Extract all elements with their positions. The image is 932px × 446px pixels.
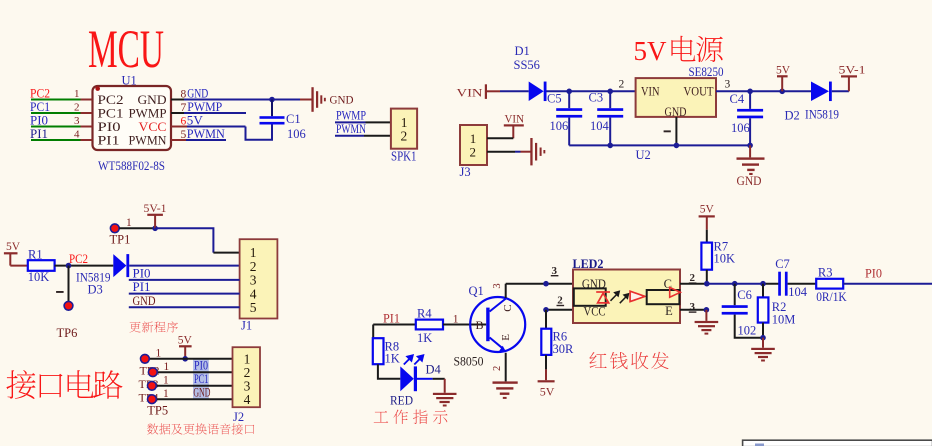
wire U1 pin 8 GND net — [171, 99, 184, 101]
caption IR transceiver — [589, 352, 668, 369]
node junction VCC/R6 — [543, 307, 549, 313]
svg-text:C: C — [502, 304, 514, 311]
wire VIN to D1 — [487, 90, 500, 92]
capacitor C1 — [271, 100, 273, 117]
node junction 5V port — [779, 89, 785, 95]
svg-text:E: E — [665, 304, 673, 318]
wire D4 to ground — [417, 378, 433, 380]
svg-text:PC1: PC1 — [194, 372, 209, 386]
wire 5V to R1 — [10, 265, 28, 267]
svg-text:10M: 10M — [772, 312, 796, 326]
svg-text:WT588F02-8S: WT588F02-8S — [98, 158, 165, 173]
node junction R2/C6 bottom — [760, 335, 766, 341]
regulator U2 SE8250 body — [636, 78, 716, 117]
wire C6 bottom — [735, 315, 763, 338]
node junction C6 — [732, 281, 738, 287]
svg-text:TP6: TP6 — [57, 326, 78, 340]
wire ground bus (PSU) — [569, 144, 750, 146]
capacitor C4 — [749, 91, 751, 109]
svg-text:GND: GND — [665, 105, 687, 119]
svg-text:PC1: PC1 — [98, 106, 124, 120]
svg-text:0R/1K: 0R/1K — [816, 290, 847, 304]
svg-text:U2: U2 — [636, 148, 651, 162]
node junction R7 — [704, 281, 710, 287]
node junction C5 top — [566, 89, 572, 95]
svg-text:4: 4 — [244, 392, 251, 407]
wire LED2 C to C7 — [680, 283, 707, 285]
node junction 5V J2 — [182, 356, 188, 362]
svg-text:E: E — [500, 334, 512, 341]
node junction C1 top — [269, 97, 275, 103]
wire U2 GND to bus — [675, 117, 677, 145]
LED2 internal input box — [574, 288, 606, 305]
ground GND (MCU) — [311, 87, 313, 112]
svg-text:VCC: VCC — [139, 120, 167, 134]
LED2 internal arrows — [611, 291, 629, 303]
svg-text:2: 2 — [74, 102, 80, 114]
svg-text:104: 104 — [590, 119, 610, 133]
svg-text:SS56: SS56 — [514, 58, 540, 72]
wire TP2 to J2 pin 2 — [157, 371, 232, 373]
wire R1 to D3 — [55, 265, 114, 267]
wire junction to TP6 — [68, 266, 70, 302]
svg-text:5V: 5V — [178, 335, 193, 347]
svg-text:3: 3 — [725, 79, 731, 91]
connector J3 — [460, 125, 487, 165]
wire PI1 to U1 pin 4 — [31, 139, 81, 141]
svg-text:5: 5 — [250, 300, 257, 315]
wire TP3 to J2 pin 3 — [156, 385, 232, 387]
svg-text:8: 8 — [181, 89, 187, 101]
svg-text:1: 1 — [453, 313, 459, 325]
wire R6 to 5V — [545, 355, 547, 370]
node junction collector wire — [543, 281, 549, 287]
svg-text:PI1: PI1 — [98, 133, 120, 147]
node junction C3 bottom — [607, 143, 613, 149]
svg-text:106: 106 — [550, 119, 569, 133]
svg-text:VIN: VIN — [505, 112, 525, 126]
svg-text:5V: 5V — [6, 241, 21, 253]
svg-text:PI0: PI0 — [865, 266, 882, 280]
svg-text:5V: 5V — [634, 35, 667, 66]
test point circle TP4 — [148, 395, 157, 404]
wire PI0 to U1 pin 3 — [31, 126, 81, 128]
wire Q1 collector to LED2 — [505, 284, 507, 298]
ground (D4) — [433, 393, 457, 395]
svg-text:RED: RED — [390, 394, 413, 408]
wire U2 VOUT to 5V — [716, 90, 811, 92]
pin dash (TP6) — [56, 291, 64, 293]
svg-text:R4: R4 — [417, 306, 432, 320]
LED2 internal IR led — [596, 292, 610, 303]
wire PI1 to R4 — [373, 324, 416, 326]
svg-text:5: 5 — [181, 129, 187, 141]
svg-text:PI1: PI1 — [383, 311, 400, 325]
svg-text:106: 106 — [287, 127, 306, 141]
svg-text:5V-1: 5V-1 — [839, 64, 866, 76]
resistor R2 — [762, 284, 764, 298]
svg-text:J1: J1 — [241, 319, 252, 333]
pin number 1 dash (U2 GND) — [664, 130, 671, 132]
svg-text:C5: C5 — [547, 91, 562, 105]
LED2 internal phototransistor box — [647, 290, 680, 304]
wire 5V-1 to J1 pin 1 — [155, 228, 213, 252]
wire PWMP to SPK1 pin 1 — [335, 121, 366, 123]
svg-text:PWMP: PWMP — [129, 106, 167, 120]
wire GND to J1 pin 5 — [129, 306, 240, 308]
svg-text:5V: 5V — [540, 384, 555, 398]
wire PC1 to U1 pin 2 — [31, 112, 81, 114]
svg-text:D4: D4 — [426, 363, 442, 377]
resistor R4 — [416, 320, 443, 330]
svg-text:SPK1: SPK1 — [391, 148, 417, 163]
svg-text:C1: C1 — [286, 112, 301, 126]
svg-text:PI1: PI1 — [30, 127, 48, 141]
svg-text:1: 1 — [74, 88, 80, 100]
wire U1 pin 5 PWMN net — [171, 139, 186, 141]
svg-text:TP1: TP1 — [110, 233, 131, 247]
wire C7 to R3 — [788, 283, 817, 285]
svg-text:2: 2 — [470, 144, 477, 159]
wire J3 pin 2 to ground — [487, 151, 515, 153]
diode D2 IN5819 — [811, 82, 829, 102]
svg-text:4: 4 — [74, 129, 80, 141]
svg-text:1: 1 — [156, 347, 162, 359]
window fragment bottom-right — [743, 440, 932, 446]
capacitor C5 — [568, 91, 570, 108]
svg-text:1K: 1K — [417, 331, 432, 345]
connector J1 — [240, 239, 278, 318]
LED2 internal buffer triangle — [630, 291, 645, 301]
node junction C4 bottom — [747, 143, 753, 149]
capacitor C3 — [609, 91, 611, 108]
svg-text:10K: 10K — [714, 251, 736, 265]
transistor Q1 S8050 — [470, 297, 525, 352]
svg-text:LED2: LED2 — [573, 257, 604, 271]
svg-text:PC1: PC1 — [30, 100, 50, 114]
test point circle TP2 — [148, 368, 157, 377]
svg-text:30R: 30R — [553, 342, 575, 356]
svg-text:D3: D3 — [88, 282, 103, 296]
svg-text:PI0: PI0 — [98, 120, 121, 134]
svg-text:2: 2 — [492, 366, 503, 371]
svg-text:5V: 5V — [776, 64, 791, 76]
wire PC2 to U1 pin 1 — [31, 99, 81, 101]
node junction C3 top — [607, 89, 613, 95]
svg-text:1: 1 — [164, 361, 170, 373]
node junction PC2 — [66, 263, 72, 269]
svg-text:1K: 1K — [385, 352, 400, 366]
ground (R2/C6) — [762, 338, 764, 348]
resistor R8 — [373, 338, 384, 364]
svg-text:3: 3 — [492, 283, 503, 288]
section title interface circuit — [6, 370, 122, 399]
svg-text:IN5819: IN5819 — [805, 108, 839, 122]
resistor R7 — [701, 243, 712, 270]
svg-text:R3: R3 — [818, 265, 833, 279]
wire R8 to D4 — [378, 364, 400, 379]
caption work indicator — [374, 410, 448, 424]
diode D3 IN5819 — [113, 254, 126, 277]
LED2 internal collector arrow — [670, 287, 681, 297]
resistor R6 — [541, 329, 551, 355]
optocoupler LED2 body — [573, 270, 680, 324]
selection highlight band — [193, 358, 209, 399]
svg-text:7: 7 — [181, 102, 187, 114]
svg-text:D2: D2 — [785, 109, 800, 123]
node junction C7/R2 — [760, 281, 766, 287]
svg-text:PC2: PC2 — [69, 252, 88, 266]
wire J3 pin 1 to VIN — [487, 137, 513, 139]
resistor R1 — [28, 260, 55, 271]
svg-text:R1: R1 — [28, 247, 43, 261]
svg-text:S8050: S8050 — [454, 354, 484, 368]
svg-text:106: 106 — [731, 121, 750, 135]
wire R4 to Q1 base — [443, 324, 486, 326]
svg-text:VCC: VCC — [584, 305, 606, 319]
diode D1 SS56 — [529, 82, 544, 102]
svg-text:10K: 10K — [28, 270, 50, 284]
svg-text:GND: GND — [187, 87, 208, 101]
svg-text:GND: GND — [133, 294, 156, 308]
svg-text:Q1: Q1 — [469, 284, 484, 298]
svg-text:GND: GND — [138, 93, 167, 107]
svg-text:SE8250: SE8250 — [689, 65, 724, 79]
svg-text:C7: C7 — [775, 257, 790, 271]
svg-text:C4: C4 — [730, 92, 745, 106]
svg-text:PI0: PI0 — [30, 114, 48, 128]
svg-text:5V: 5V — [187, 114, 203, 128]
ground GND (PSU) — [749, 145, 751, 157]
svg-text:J3: J3 — [460, 165, 471, 179]
wire TP1 to 5V-1 — [119, 227, 155, 229]
svg-text:GND: GND — [737, 174, 762, 188]
svg-text:2: 2 — [401, 129, 408, 144]
svg-text:MCU: MCU — [88, 19, 164, 79]
svg-text:5V: 5V — [700, 204, 715, 216]
svg-text:VIN: VIN — [641, 85, 660, 99]
capacitor C7 — [778, 272, 781, 296]
svg-text:PWMN: PWMN — [187, 127, 225, 141]
wire PI1 to R8 — [372, 325, 374, 339]
LED D4 — [400, 366, 414, 391]
node junction C4 top — [747, 89, 753, 95]
wire D3 to J1 pin 2 — [129, 265, 239, 267]
svg-text:GND: GND — [330, 93, 354, 107]
wire TP to J2 pin 1 — [149, 358, 232, 360]
node junction U2 GND — [674, 143, 680, 149]
svg-text:C3: C3 — [589, 90, 604, 104]
wire D1 to U2 VIN — [546, 90, 635, 92]
svg-text:PI0: PI0 — [133, 267, 151, 281]
svg-text:D1: D1 — [515, 44, 530, 58]
wire VCC junction to LED2 — [546, 309, 573, 311]
svg-text:6: 6 — [181, 116, 187, 128]
svg-text:B: B — [476, 318, 484, 332]
caption update program — [130, 321, 178, 332]
wire PI0 to J1 pin 3 — [129, 279, 240, 281]
svg-text:104: 104 — [788, 285, 808, 299]
svg-text:PWMN: PWMN — [129, 133, 167, 147]
svg-text:C6: C6 — [737, 288, 752, 302]
svg-text:GND: GND — [193, 386, 210, 400]
power port 5V (R6) — [538, 380, 555, 382]
svg-text:PC2: PC2 — [98, 93, 124, 107]
svg-text:PI1: PI1 — [133, 280, 151, 294]
wire PWMN to SPK1 pin 2 — [335, 135, 364, 137]
test point circle TP3 — [148, 381, 157, 390]
ground (Q1) — [493, 381, 518, 383]
wire Q1 emitter to ground — [505, 353, 507, 382]
svg-text:PWMP: PWMP — [336, 109, 366, 123]
wire D2 to 5V-1 — [832, 90, 849, 92]
svg-text:J2: J2 — [233, 410, 244, 424]
svg-text:PI0: PI0 — [194, 358, 208, 372]
wire PI1 to J1 pin 4 — [129, 293, 240, 295]
svg-text:VIN: VIN — [457, 85, 483, 99]
test point TP1 — [110, 224, 119, 233]
svg-text:PWMN: PWMN — [336, 122, 366, 136]
ground (LED2 E) — [680, 309, 706, 311]
test point TP6 — [64, 301, 73, 310]
svg-text:102: 102 — [738, 323, 757, 337]
LED D4 arrows — [404, 355, 424, 364]
connector J2 — [233, 347, 261, 407]
svg-text:5V-1: 5V-1 — [144, 203, 167, 215]
svg-text:2: 2 — [619, 79, 625, 91]
chip U1 body WT588F02-8S — [93, 86, 172, 150]
ground (J3 pin 2) — [530, 138, 532, 165]
svg-text:TP5: TP5 — [147, 404, 168, 418]
wire U1 pin 6 5V net — [171, 126, 187, 128]
svg-text:1: 1 — [163, 374, 169, 386]
wire TP4 to J2 pin 4 — [156, 398, 232, 400]
svg-text:3: 3 — [74, 115, 80, 127]
svg-text:VOUT: VOUT — [684, 85, 714, 99]
svg-text:1: 1 — [163, 388, 169, 400]
svg-text:1: 1 — [126, 217, 132, 229]
test point circle 1 — [141, 354, 150, 363]
svg-text:PWMP: PWMP — [187, 100, 222, 114]
capacitor C6 — [734, 284, 736, 306]
caption data and voice interface — [147, 423, 254, 434]
svg-text:PC2: PC2 — [30, 87, 50, 101]
wire U1 pin 7 PWMP net — [171, 112, 184, 114]
resistor R3 — [816, 279, 843, 289]
node junction 5V-1 — [152, 226, 158, 232]
wire R7 to C wire — [706, 270, 708, 284]
wire R2 to ground — [762, 323, 764, 338]
wire R6 top — [545, 310, 547, 329]
wire R3 to PI0 — [843, 283, 932, 285]
